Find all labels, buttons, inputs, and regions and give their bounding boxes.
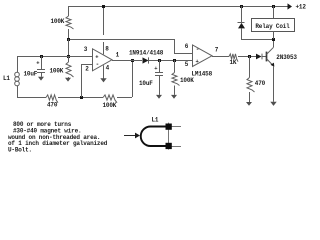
svg-text:-: - <box>96 61 99 68</box>
svg-text:6: 6 <box>185 43 189 50</box>
note text line1 <box>13 121 72 128</box>
op-amp U1a output pin1 <box>112 51 142 60</box>
U-bolt nut (bottom) <box>166 143 172 149</box>
resistor 470 (L1 series) <box>46 95 58 109</box>
wire relay bottom <box>241 38 275 41</box>
node detector <box>158 59 176 62</box>
op-amp U1b output pin7 <box>212 47 229 57</box>
wire input node <box>17 55 92 58</box>
wire bias node to pin6 <box>67 38 174 41</box>
diode 1N914/4148 <box>129 50 192 64</box>
wire 1K to diode <box>238 55 256 58</box>
resistor 100K (detector load) <box>171 60 194 99</box>
op-amp U1b triangle <box>193 45 213 67</box>
resistor 470 (base pulldown) <box>246 56 266 106</box>
op-amp U1b pin6 label <box>185 43 189 50</box>
wire bottom mid <box>58 96 103 99</box>
diode (relay flyback) <box>238 5 246 39</box>
wire bias node down <box>67 39 70 58</box>
op-amp U1a pin2 wire <box>81 64 92 97</box>
supply arrow +12 <box>288 3 307 10</box>
U-bolt coil form L1 label <box>152 117 159 124</box>
svg-text:+12: +12 <box>296 4 307 11</box>
resistor 100K (bias to ground) <box>50 56 74 82</box>
capacitor 10uF (detector) <box>139 60 163 99</box>
wire corner down to pin 6 <box>174 39 192 54</box>
note text line2 <box>13 128 81 135</box>
wire +12 supply rail <box>68 6 289 8</box>
transistor emitter ground <box>270 66 276 106</box>
relay coil <box>252 5 295 39</box>
capacitor 10uF (input) <box>24 56 46 81</box>
resistor 100K (feedback) <box>103 95 118 109</box>
U-bolt nut (top) <box>166 124 172 130</box>
svg-text:L1: L1 <box>3 75 10 82</box>
svg-text:100K: 100K <box>50 67 64 74</box>
svg-text:7: 7 <box>215 47 219 54</box>
svg-text:470: 470 <box>255 80 266 87</box>
resistor 100K (bias from +12) <box>51 6 74 39</box>
inductor L1 <box>3 56 19 97</box>
svg-text:1N914/4148: 1N914/4148 <box>129 50 164 57</box>
svg-text:3: 3 <box>84 46 88 53</box>
svg-text:100K: 100K <box>51 18 65 25</box>
svg-text:1: 1 <box>116 51 120 58</box>
pointer arrow <box>124 133 140 139</box>
svg-text:100K: 100K <box>103 102 117 109</box>
svg-text:10uF: 10uF <box>24 71 38 78</box>
svg-text:LM1458: LM1458 <box>192 71 213 78</box>
svg-text:100K: 100K <box>180 77 194 84</box>
op-amp U1a pin8 wire <box>102 5 109 54</box>
svg-text:470: 470 <box>47 102 58 109</box>
transistor Q1 2N3053 <box>267 39 298 67</box>
svg-text:Relay Coil: Relay Coil <box>255 23 290 30</box>
op-amp U1b pin5 label <box>185 61 189 68</box>
wire feedback up <box>117 59 134 98</box>
op-amp U1a pin3 label <box>84 46 88 53</box>
op-amp U1a pin4 ground <box>100 64 109 82</box>
svg-text:-: - <box>196 46 199 53</box>
svg-text:2: 2 <box>85 65 89 72</box>
op-amp U1a triangle <box>93 49 113 71</box>
note text line4 <box>8 140 108 147</box>
svg-text:8: 8 <box>105 46 109 53</box>
wire bottom left <box>17 97 46 99</box>
svg-text:4: 4 <box>106 64 110 71</box>
diode (base) <box>256 54 266 60</box>
note text line3 <box>8 134 100 141</box>
note text line5 <box>8 146 32 153</box>
svg-text:2N3053: 2N3053 <box>276 54 297 61</box>
svg-text:5: 5 <box>185 61 189 68</box>
svg-text:1K: 1K <box>230 59 237 66</box>
resistor 1K <box>229 54 238 66</box>
svg-text:U-Bolt.: U-Bolt. <box>8 146 32 153</box>
svg-text:10uF: 10uF <box>139 80 153 87</box>
U-bolt drawing <box>141 123 181 150</box>
op-amp U1b label <box>192 71 213 78</box>
svg-text:L1: L1 <box>152 117 159 124</box>
